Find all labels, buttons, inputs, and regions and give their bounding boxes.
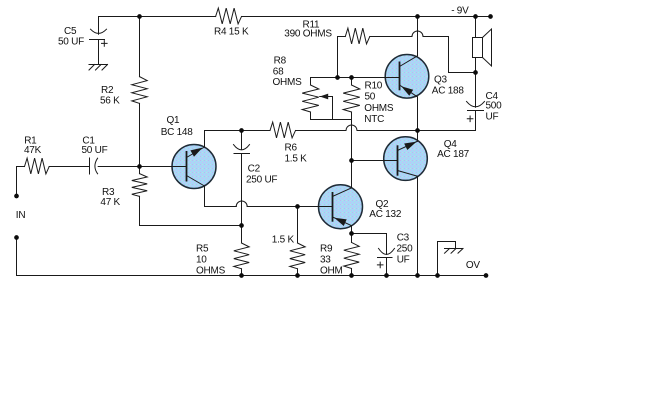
svg-text:1.5 K: 1.5 K: [285, 153, 308, 164]
svg-text:OV: OV: [466, 260, 481, 271]
svg-text:R10: R10: [365, 80, 383, 91]
svg-text:C3: C3: [397, 233, 410, 244]
svg-text:250 UF: 250 UF: [246, 174, 277, 185]
svg-text:250: 250: [397, 244, 414, 255]
svg-text:50 UF: 50 UF: [58, 37, 84, 48]
svg-text:OHMS: OHMS: [273, 77, 303, 88]
svg-text:OHM: OHM: [320, 266, 343, 277]
svg-text:Q3: Q3: [434, 75, 448, 86]
svg-text:50 UF: 50 UF: [82, 145, 108, 156]
svg-text:- 9V: - 9V: [451, 6, 469, 17]
svg-text:500: 500: [486, 100, 503, 111]
svg-text:R9: R9: [320, 244, 333, 255]
svg-text:OHMS: OHMS: [196, 266, 226, 277]
svg-text:47 K: 47 K: [100, 197, 120, 208]
svg-text:R6: R6: [285, 142, 298, 153]
svg-text:BC 148: BC 148: [161, 127, 194, 138]
svg-text:56 K: 56 K: [100, 96, 120, 107]
svg-text:C5: C5: [64, 26, 77, 37]
svg-text:1.5 K: 1.5 K: [272, 235, 295, 246]
svg-text:10: 10: [196, 255, 207, 266]
svg-text:IN: IN: [16, 210, 26, 221]
svg-text:OHMS: OHMS: [364, 103, 394, 114]
svg-text:68: 68: [273, 66, 284, 77]
svg-text:UF: UF: [397, 255, 410, 266]
svg-text:50: 50: [365, 92, 376, 103]
svg-text:R5: R5: [196, 244, 209, 255]
svg-text:AC 188: AC 188: [432, 86, 465, 97]
svg-text:NTC: NTC: [364, 114, 384, 125]
svg-text:AC 132: AC 132: [369, 209, 402, 220]
svg-text:33: 33: [320, 255, 331, 266]
svg-text:UF: UF: [486, 112, 499, 123]
svg-text:Q1: Q1: [167, 115, 181, 126]
svg-text:C2: C2: [248, 164, 261, 175]
svg-text:R4 15 K: R4 15 K: [214, 27, 249, 38]
svg-text:390 OHMS: 390 OHMS: [284, 29, 332, 40]
svg-text:AC 187: AC 187: [437, 149, 470, 160]
svg-text:47K: 47K: [24, 145, 42, 156]
svg-text:R2: R2: [101, 85, 114, 96]
svg-text:R8: R8: [274, 56, 287, 67]
